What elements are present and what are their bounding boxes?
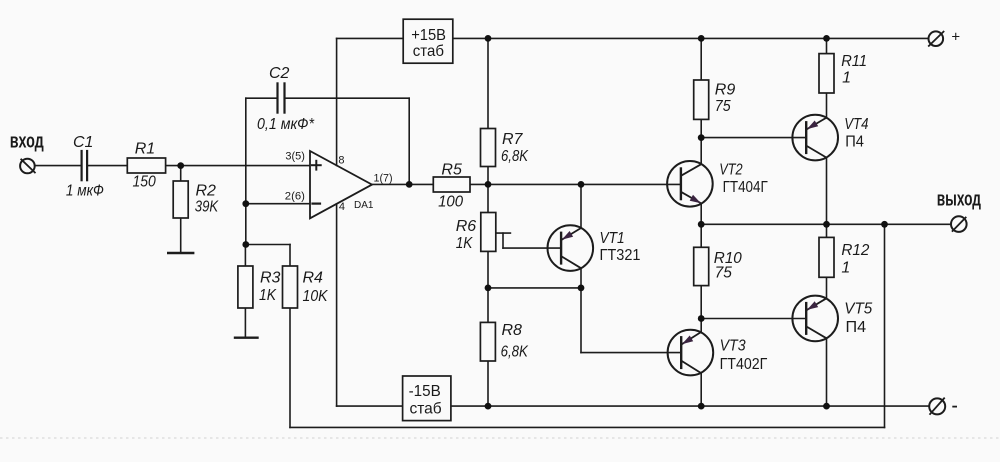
svg-text:150: 150 xyxy=(133,174,156,191)
svg-text:R3: R3 xyxy=(260,270,281,287)
svg-text:ГТ402Г: ГТ402Г xyxy=(720,356,768,373)
svg-text:6,8K: 6,8K xyxy=(501,343,529,360)
svg-text:2(6): 2(6) xyxy=(285,190,305,202)
svg-text:1: 1 xyxy=(842,70,851,87)
svg-text:39K: 39K xyxy=(195,198,219,215)
svg-text:+: + xyxy=(951,29,960,46)
svg-text:VT4: VT4 xyxy=(844,116,869,133)
svg-text:8: 8 xyxy=(338,155,344,167)
svg-text:3(5): 3(5) xyxy=(285,150,305,162)
svg-text:выход: выход xyxy=(937,188,982,210)
svg-text:1(7): 1(7) xyxy=(374,173,393,185)
svg-text:C1: C1 xyxy=(73,134,93,151)
svg-text:R5: R5 xyxy=(441,161,462,178)
svg-text:R8: R8 xyxy=(502,322,523,339)
svg-text:75: 75 xyxy=(715,265,732,282)
svg-text:VT1: VT1 xyxy=(600,230,625,247)
svg-text:-15В: -15В xyxy=(409,383,441,400)
svg-text:100: 100 xyxy=(438,194,463,211)
svg-text:R11: R11 xyxy=(841,53,867,70)
svg-text:R4: R4 xyxy=(303,270,324,287)
svg-text:ГТ321: ГТ321 xyxy=(600,247,641,264)
svg-text:R9: R9 xyxy=(715,81,736,98)
svg-text:П4: П4 xyxy=(845,134,864,151)
svg-text:1K: 1K xyxy=(456,235,474,252)
svg-text:4: 4 xyxy=(339,201,345,213)
svg-text:VT2: VT2 xyxy=(719,161,743,178)
svg-text:+15В: +15В xyxy=(411,27,446,44)
svg-text:0,1 мкФ*: 0,1 мкФ* xyxy=(257,116,315,133)
svg-text:П4: П4 xyxy=(846,319,867,336)
svg-text:DA1: DA1 xyxy=(354,199,374,211)
svg-text:ГТ404Г: ГТ404Г xyxy=(723,179,768,196)
svg-text:C2: C2 xyxy=(269,65,290,82)
svg-text:R6: R6 xyxy=(456,218,477,235)
svg-text:1K: 1K xyxy=(259,287,277,304)
svg-text:75: 75 xyxy=(715,98,731,115)
svg-text:R1: R1 xyxy=(135,140,155,157)
svg-text:1 мкФ: 1 мкФ xyxy=(66,182,104,199)
svg-text:VT3: VT3 xyxy=(720,338,746,355)
svg-text:6,8K: 6,8K xyxy=(501,148,529,165)
svg-text:10K: 10K xyxy=(303,288,329,305)
svg-text:вход: вход xyxy=(10,131,44,153)
svg-text:1: 1 xyxy=(841,260,850,277)
svg-text:VT5: VT5 xyxy=(844,300,872,317)
svg-text:R2: R2 xyxy=(196,182,217,199)
svg-text:стаб: стаб xyxy=(410,400,442,417)
svg-text:стаб: стаб xyxy=(413,43,444,60)
svg-text:R7: R7 xyxy=(502,131,524,148)
svg-text:R12: R12 xyxy=(841,242,869,259)
